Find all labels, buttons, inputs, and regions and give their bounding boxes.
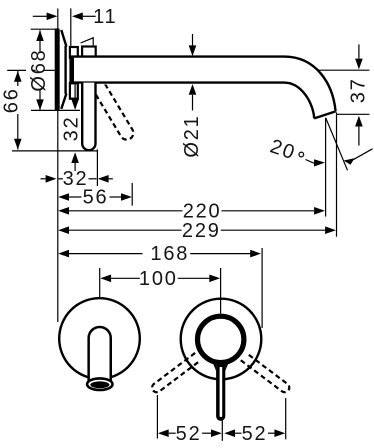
svg-text:11: 11 [93,6,117,28]
svg-text:37: 37 [347,77,369,103]
svg-text:32: 32 [61,115,83,141]
svg-text:66: 66 [1,87,23,113]
svg-text:52: 52 [176,423,202,445]
svg-text:100: 100 [139,268,178,290]
svg-text:Ø21: Ø21 [181,114,203,157]
svg-text:229: 229 [182,220,221,242]
svg-text:56: 56 [83,186,109,208]
svg-text:168: 168 [150,243,189,265]
svg-text:52: 52 [242,423,268,445]
